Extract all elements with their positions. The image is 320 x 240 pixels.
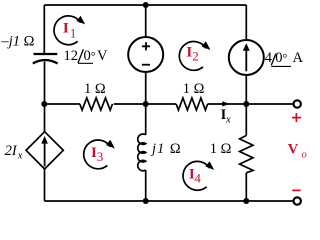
svg-text:o: o [302, 149, 307, 160]
wire left rail upper (to capacitor) [43, 5, 45, 53]
output minus sign [292, 189, 300, 191]
wire current source branch lower [245, 75, 247, 105]
wire top rail [44, 4, 246, 6]
svg-text:3: 3 [97, 149, 104, 164]
wire middle rail segment 3 [208, 103, 294, 105]
svg-text:1 Ω: 1 Ω [210, 141, 232, 157]
svg-text:1: 1 [70, 25, 77, 40]
current arrow Ix [222, 101, 229, 106]
wire middle rail segment 2 [114, 103, 177, 105]
terminal bottom (Vo -) [294, 197, 301, 204]
mesh current label I3 [91, 145, 103, 164]
svg-text:–j1 Ω: –j1 Ω [1, 34, 35, 50]
mesh current label I2 [186, 45, 198, 64]
svg-text:2I: 2I [5, 143, 18, 159]
voltage source V1 12/0 V [128, 37, 163, 72]
mesh current loop I1 [54, 16, 85, 45]
output voltage label Vo [288, 141, 307, 160]
svg-text:x: x [17, 150, 23, 161]
svg-text:I: I [63, 20, 69, 36]
current source value label 4/0 A [265, 50, 304, 67]
wire voltage source branch upper [145, 5, 147, 38]
node dot middle rail / left [41, 101, 47, 107]
terminal top (Vo +) [294, 100, 301, 107]
svg-text:2: 2 [192, 49, 199, 64]
wire bottom rail [44, 200, 293, 202]
output plus sign [292, 113, 301, 122]
wire left rail below diamond [44, 169, 46, 201]
current label Ix [221, 107, 231, 126]
svg-text:x: x [225, 115, 231, 126]
mesh current loop I2 [179, 41, 210, 70]
current source I1src 4/0 A [229, 40, 264, 75]
wire right resistor branch upper [245, 104, 247, 136]
resistor R2 1 ohm (right horizontal) [176, 98, 207, 110]
dependent source 2Ix (diamond) [26, 132, 63, 169]
svg-text:A: A [293, 50, 304, 66]
voltage source value label 12/0 V [64, 48, 109, 64]
inductor L1 j1 ohm [138, 134, 146, 171]
wire left rail lower (capacitor to diamond) [44, 62, 46, 132]
node dot top rail / voltage branch [143, 2, 149, 8]
wire inductor branch lower [145, 170, 147, 201]
wire current source branch upper [245, 5, 247, 41]
mesh current loop I4 [183, 161, 214, 190]
capacitor C1 (-j1 ohm) [33, 54, 58, 64]
wire right resistor branch lower [245, 173, 247, 201]
svg-text:4: 4 [194, 170, 201, 185]
mesh current loop I3 [84, 140, 115, 169]
svg-text:1 Ω: 1 Ω [84, 81, 106, 97]
resistor R1 1 ohm (left horizontal) [80, 98, 113, 110]
node dot bottom rail / center [143, 198, 149, 204]
svg-text:1 Ω: 1 Ω [183, 81, 205, 97]
svg-text:0°: 0° [275, 50, 287, 66]
node dot bottom rail / right [243, 198, 249, 204]
svg-text:j1 Ω: j1 Ω [150, 141, 182, 157]
svg-text:V: V [288, 141, 299, 157]
wire middle rail segment 1 [44, 103, 80, 105]
wire voltage source branch lower [145, 72, 147, 105]
svg-text:0°: 0° [84, 48, 96, 64]
mesh current label I1 [63, 20, 77, 40]
svg-text:12: 12 [64, 48, 79, 64]
node dot middle rail / center [143, 101, 149, 107]
mesh current label I4 [189, 166, 202, 185]
node dot middle rail / right [243, 101, 249, 107]
dependent source label 2Ix [5, 143, 23, 161]
svg-text:V: V [97, 48, 108, 64]
wire inductor branch upper [145, 104, 147, 135]
resistor R3 1 ohm (right vertical) [240, 136, 253, 173]
